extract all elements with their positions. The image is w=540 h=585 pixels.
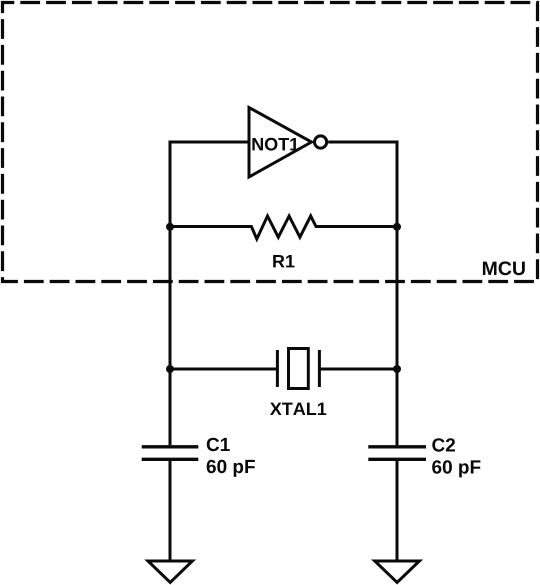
capacitor C2 bottom plate [368,458,426,461]
inverter NOT1 output bubble [315,136,327,148]
ground (right) [375,561,420,582]
wire: right rail from output row to C2 top plate [396,141,399,446]
wire: XTAL1 right plate to right rail [320,368,397,371]
wire: NOT1 input from left rail [170,141,250,144]
junction: left rail / XTAL1 [166,365,174,373]
XTAL1 label [270,403,326,415]
wire: left rail from input row to C1 top plate [169,141,172,446]
capacitor C2 top plate [368,445,426,448]
crystal XTAL1 left plate [276,350,279,387]
C1 value label 60 pF [207,460,255,477]
wire: left rail from C1 bottom plate to ground [169,461,172,562]
wire: right rail from C2 bottom plate to ground [396,461,399,562]
junction: right rail / R1 [393,223,401,231]
MCU label [483,261,525,275]
capacitor C1 bottom plate [142,458,199,461]
C1 label [207,438,230,452]
MCU boundary box [3,3,538,282]
junction: right rail / XTAL1 [393,365,401,373]
wire: left rail to XTAL1 left plate [170,368,276,371]
C2 value label 60 pF [432,460,480,477]
ground (left) [148,561,192,582]
NOT1 label [252,138,298,151]
R1 label [273,255,294,267]
resistor R1 with lead wires [170,216,397,239]
crystal XTAL1 right plate [318,350,321,387]
inverter NOT1 (triangle) [249,108,312,178]
wire: NOT1 output to right rail [328,141,397,144]
junction: left rail / R1 [166,223,174,231]
C2 label [432,438,455,452]
crystal XTAL1 body rectangle [289,349,309,389]
capacitor C1 top plate [142,445,199,448]
